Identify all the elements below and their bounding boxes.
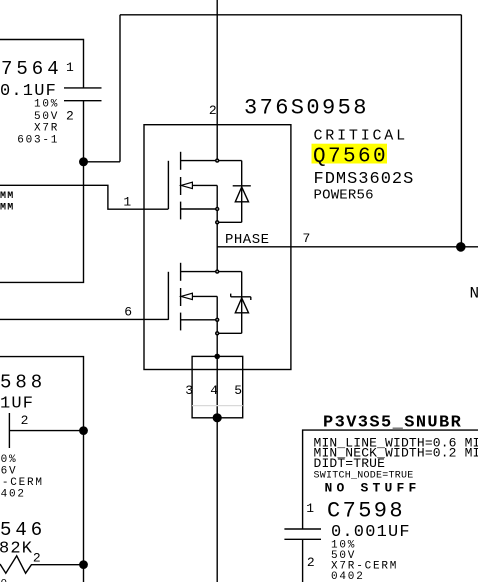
svg-text:1: 1: [306, 501, 314, 516]
svg-text:2: 2: [307, 555, 315, 570]
svg-text:FDMS3602S: FDMS3602S: [314, 170, 415, 189]
svg-text:3: 3: [185, 383, 193, 398]
svg-text:7: 7: [303, 231, 311, 246]
svg-text:C7588: C7588: [0, 372, 46, 394]
svg-text:2: 2: [66, 109, 74, 124]
svg-text:X7R-CERM: X7R-CERM: [0, 477, 44, 489]
svg-text:CRITICAL: CRITICAL: [314, 127, 408, 144]
svg-text:X7R: X7R: [34, 123, 59, 135]
svg-text:MM: MM: [0, 191, 14, 202]
svg-text:1: 1: [123, 194, 131, 209]
svg-text:PHASE: PHASE: [225, 232, 270, 248]
svg-text:2: 2: [21, 413, 29, 428]
svg-text:10%: 10%: [34, 99, 59, 111]
svg-text:50V: 50V: [34, 111, 59, 123]
svg-text:0402: 0402: [331, 571, 365, 582]
svg-text:MM: MM: [0, 203, 14, 214]
svg-text:4: 4: [210, 383, 218, 398]
svg-text:N: N: [470, 285, 478, 303]
svg-text:6: 6: [124, 304, 132, 319]
svg-text:DIDT=TRUE: DIDT=TRUE: [314, 456, 386, 471]
svg-text:1: 1: [66, 60, 74, 75]
svg-text:Q7560: Q7560: [313, 146, 388, 169]
svg-text:R7546: R7546: [0, 519, 46, 541]
svg-text:POWER56: POWER56: [314, 188, 374, 204]
svg-text:10%: 10%: [0, 454, 17, 466]
svg-text:2: 2: [209, 103, 217, 118]
svg-text:7564: 7564: [1, 58, 63, 80]
svg-text:0402: 0402: [0, 488, 26, 500]
svg-text:2: 2: [33, 551, 41, 566]
svg-text:16V: 16V: [0, 465, 17, 477]
svg-text:P3V3S5_SNUBR: P3V3S5_SNUBR: [323, 414, 462, 433]
svg-text:0: 0: [1, 579, 9, 582]
svg-text:5: 5: [234, 383, 242, 398]
svg-text:NO STUFF: NO STUFF: [325, 481, 421, 496]
svg-text:0.1UF: 0.1UF: [0, 395, 34, 414]
svg-text:C7598: C7598: [327, 499, 405, 524]
svg-text:82K: 82K: [0, 540, 33, 559]
svg-text:376S0958: 376S0958: [244, 96, 369, 121]
svg-text:603-1: 603-1: [17, 135, 59, 147]
